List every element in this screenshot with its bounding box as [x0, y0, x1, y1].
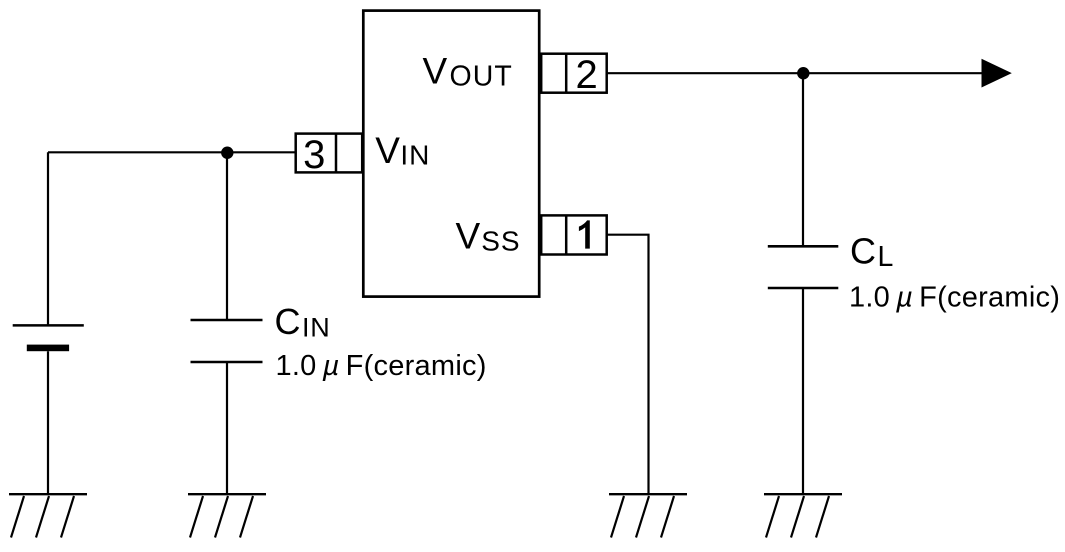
ground (battery): [9, 494, 87, 537]
node VOUT junction: [797, 67, 809, 79]
wire CL bottom vertical: [802, 288, 804, 494]
pin 3: [296, 133, 363, 177]
capacitor CL: [768, 246, 839, 288]
svg-text:1.0 µ F(ceramic): 1.0 µ F(ceramic): [849, 282, 1060, 314]
pin 1: [541, 215, 607, 254]
svg-text:3: 3: [303, 133, 325, 177]
pin 2: [541, 53, 607, 97]
node VIN junction: [221, 147, 233, 159]
wire CIN top vertical: [226, 152, 228, 320]
wire battery bottom vertical: [47, 351, 49, 494]
capacitor CIN: [191, 320, 263, 362]
battery B1: [13, 325, 84, 351]
ground (CL): [764, 494, 842, 537]
ground (VSS): [609, 494, 687, 537]
output arrow: [982, 59, 1012, 88]
op-amp U1 (regulator IC body): [363, 11, 539, 297]
wire CL top vertical: [802, 73, 804, 246]
svg-text:1.0 µ F(ceramic): 1.0 µ F(ceramic): [276, 350, 487, 382]
wire output (pin 2 to arrow): [607, 72, 983, 74]
wire battery top vertical: [47, 152, 49, 325]
wire VSS (pin 1 to ground): [607, 235, 649, 495]
wire input horizontal (battery to pin 3): [48, 151, 296, 153]
svg-text:2: 2: [575, 53, 597, 97]
ground (CIN): [188, 494, 266, 537]
wire CIN bottom vertical: [226, 362, 228, 494]
